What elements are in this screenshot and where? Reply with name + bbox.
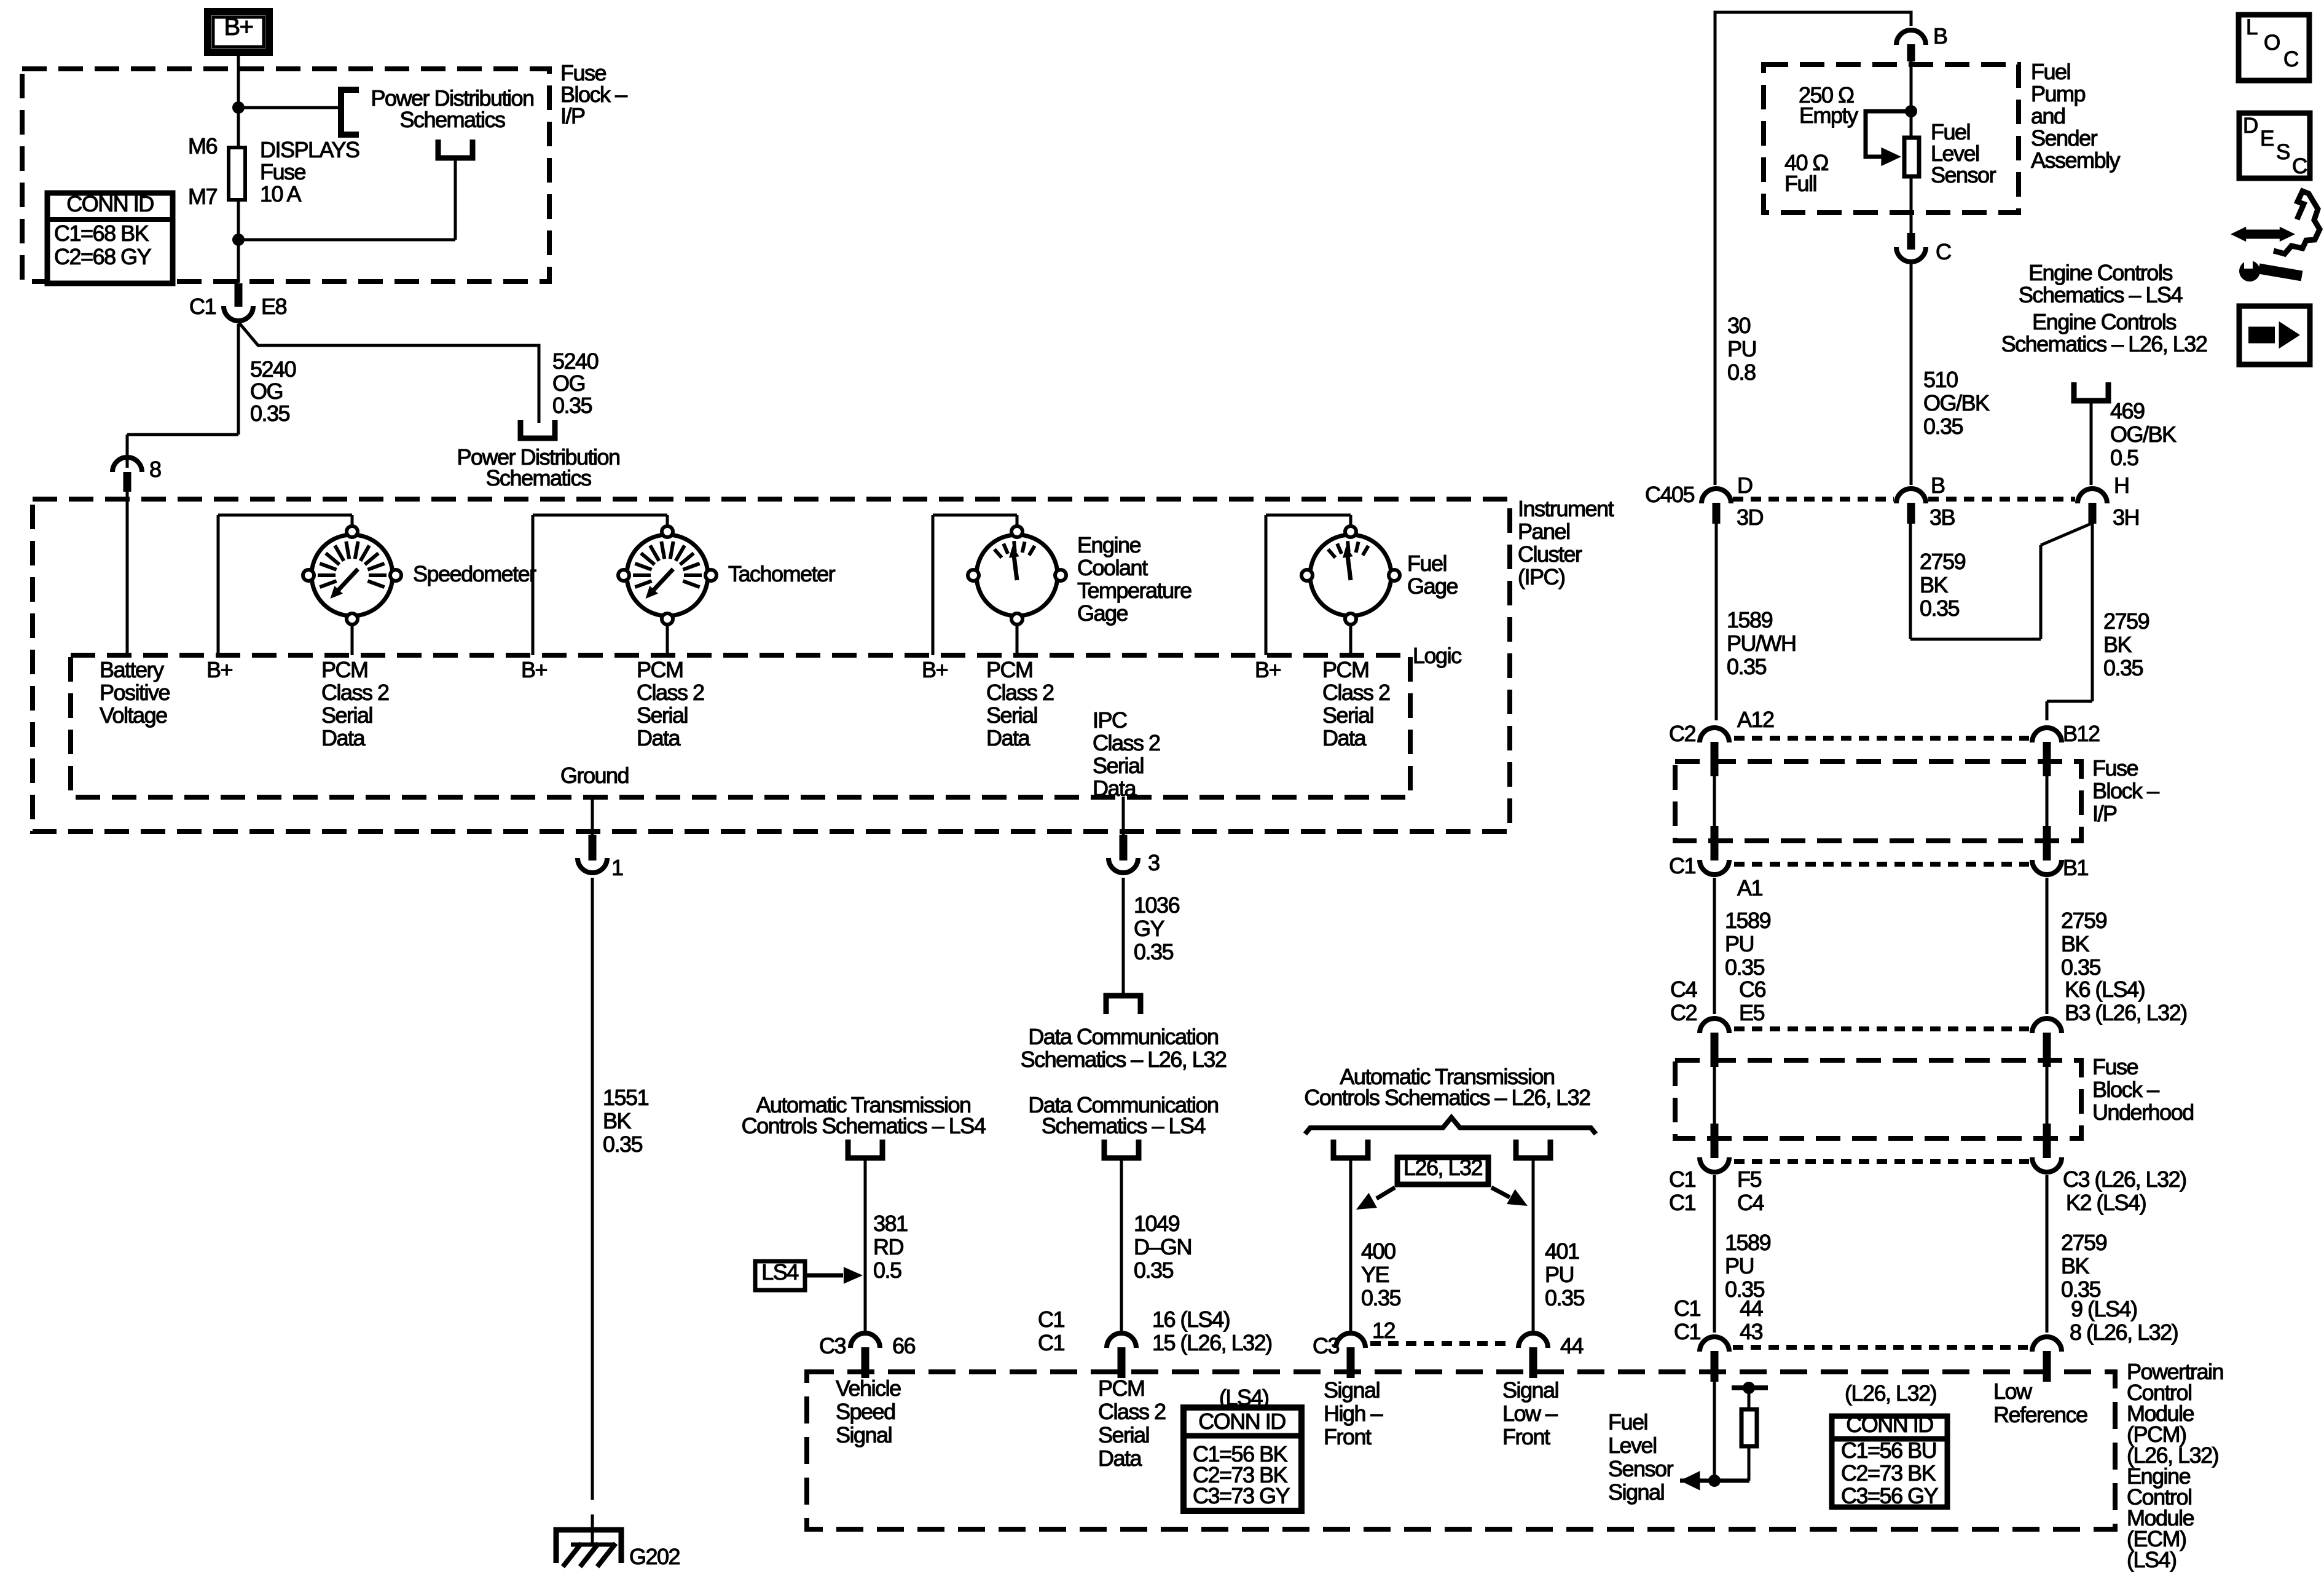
svg-text:Positive: Positive [100, 680, 170, 705]
svg-text:0.35: 0.35 [1920, 596, 1960, 621]
svg-text:Engine Controls: Engine Controls [2032, 309, 2176, 334]
svg-text:(L26, L32): (L26, L32) [1845, 1380, 1936, 1406]
svg-text:OG/BK: OG/BK [2110, 422, 2177, 447]
svg-text:C4: C4 [1737, 1190, 1764, 1215]
svg-text:Schematics – L26, L32: Schematics – L26, L32 [2001, 331, 2207, 356]
svg-text:E8: E8 [261, 294, 287, 319]
svg-text:O: O [2264, 31, 2280, 55]
svg-text:Logic: Logic [1413, 643, 1462, 668]
svg-text:Vehicle: Vehicle [836, 1376, 901, 1401]
svg-text:B+: B+ [206, 657, 233, 682]
svg-text:L: L [2246, 15, 2258, 39]
svg-text:B+: B+ [224, 14, 253, 41]
svg-text:1: 1 [611, 855, 623, 880]
svg-text:BK: BK [2061, 931, 2090, 956]
svg-text:YE: YE [1361, 1262, 1389, 1287]
svg-text:Gage: Gage [1407, 573, 1458, 599]
svg-text:Schematics – LS4: Schematics – LS4 [2019, 282, 2183, 307]
svg-text:B3 (L26, L32): B3 (L26, L32) [2065, 1000, 2187, 1025]
svg-text:Engine Controls: Engine Controls [2028, 260, 2172, 285]
svg-text:IPC: IPC [1093, 707, 1127, 733]
svg-text:Block –: Block – [2092, 1077, 2159, 1102]
svg-text:K2 (LS4): K2 (LS4) [2066, 1190, 2146, 1215]
svg-text:1049: 1049 [1134, 1211, 1180, 1236]
svg-text:C1: C1 [1038, 1330, 1064, 1355]
svg-text:Schematics: Schematics [399, 107, 505, 132]
svg-text:C3=56 GY: C3=56 GY [1841, 1483, 1939, 1508]
svg-text:Signal: Signal [836, 1422, 892, 1447]
svg-text:0.35: 0.35 [1134, 939, 1174, 964]
svg-text:and: and [2031, 103, 2065, 128]
svg-text:Speedometer: Speedometer [413, 561, 536, 586]
svg-text:9 (LS4): 9 (LS4) [2071, 1296, 2137, 1321]
svg-text:Fuse: Fuse [2092, 1054, 2138, 1079]
svg-text:510: 510 [1923, 367, 1958, 392]
svg-text:PU: PU [1545, 1262, 1574, 1287]
svg-text:H: H [2114, 473, 2129, 498]
svg-text:C: C [1936, 239, 1951, 264]
svg-text:1589: 1589 [1727, 607, 1773, 632]
svg-text:LS4: LS4 [761, 1259, 798, 1285]
svg-text:0.35: 0.35 [1727, 654, 1767, 679]
svg-text:(LS4): (LS4) [2127, 1547, 2177, 1572]
svg-text:B+: B+ [922, 657, 948, 682]
svg-text:I/P: I/P [560, 103, 585, 128]
svg-text:15 (L26, L32): 15 (L26, L32) [1152, 1330, 1272, 1355]
svg-text:C2: C2 [1669, 721, 1695, 746]
svg-text:C1=68 BK: C1=68 BK [54, 221, 149, 246]
svg-text:5240: 5240 [552, 348, 599, 374]
svg-text:0.35: 0.35 [250, 401, 290, 426]
svg-text:Front: Front [1324, 1424, 1372, 1449]
svg-text:PU: PU [1727, 336, 1756, 361]
svg-text:8: 8 [149, 457, 161, 482]
svg-text:C1: C1 [1674, 1319, 1700, 1344]
svg-text:BK: BK [603, 1108, 632, 1133]
svg-text:B: B [1933, 23, 1947, 49]
svg-text:M7: M7 [188, 184, 217, 209]
svg-text:8 (L26, L32): 8 (L26, L32) [2070, 1320, 2178, 1345]
svg-text:RD: RD [873, 1234, 903, 1259]
svg-text:F5: F5 [1737, 1167, 1761, 1192]
svg-text:0.35: 0.35 [1725, 955, 1765, 980]
svg-text:Class 2: Class 2 [1322, 680, 1390, 705]
svg-text:Voltage: Voltage [100, 703, 167, 728]
svg-text:0.35: 0.35 [603, 1132, 643, 1157]
svg-text:PU: PU [1725, 1253, 1754, 1278]
svg-text:Engine: Engine [1077, 532, 1141, 557]
svg-text:Pump: Pump [2031, 81, 2086, 106]
svg-text:B1: B1 [2063, 855, 2089, 880]
svg-text:C1: C1 [1669, 853, 1695, 878]
svg-text:0.35: 0.35 [2103, 655, 2143, 680]
svg-text:BK: BK [1920, 572, 1949, 597]
svg-text:0.5: 0.5 [873, 1258, 901, 1283]
svg-text:Serial: Serial [1098, 1422, 1149, 1447]
svg-text:C3: C3 [1313, 1333, 1339, 1358]
svg-text:C1: C1 [1674, 1296, 1700, 1321]
svg-text:Data: Data [1093, 776, 1137, 801]
svg-text:C1: C1 [1038, 1307, 1064, 1332]
svg-text:C3 (L26, L32): C3 (L26, L32) [2063, 1167, 2186, 1192]
svg-text:I/P: I/P [2092, 801, 2117, 826]
svg-text:E: E [2260, 127, 2274, 151]
svg-text:Class 2: Class 2 [986, 680, 1054, 705]
svg-text:Reference: Reference [1993, 1402, 2087, 1427]
svg-text:CONN ID: CONN ID [66, 191, 154, 216]
svg-text:Serial: Serial [1322, 703, 1373, 728]
svg-text:C1: C1 [1669, 1190, 1695, 1215]
svg-text:0.35: 0.35 [1545, 1285, 1585, 1310]
svg-text:2759: 2759 [2061, 908, 2107, 933]
svg-text:Speed: Speed [836, 1399, 895, 1424]
svg-text:B+: B+ [1255, 657, 1281, 682]
svg-text:0.35: 0.35 [1361, 1285, 1401, 1310]
svg-text:C405: C405 [1645, 482, 1695, 507]
svg-text:Serial: Serial [321, 703, 372, 728]
svg-text:Schematics: Schematics [485, 465, 591, 490]
svg-text:Serial: Serial [1093, 753, 1144, 778]
svg-text:Serial: Serial [637, 703, 688, 728]
svg-text:12: 12 [1372, 1318, 1396, 1343]
svg-text:Tachometer: Tachometer [728, 561, 836, 586]
svg-text:469: 469 [2110, 398, 2145, 423]
svg-text:Fuse: Fuse [260, 159, 306, 184]
svg-text:PCM: PCM [637, 657, 683, 682]
svg-text:A12: A12 [1737, 707, 1774, 732]
svg-text:Data Communication: Data Communication [1028, 1024, 1218, 1049]
svg-text:B+: B+ [521, 657, 548, 682]
svg-text:0.35: 0.35 [2061, 955, 2101, 980]
svg-text:0.5: 0.5 [2110, 445, 2138, 470]
svg-text:Fuse: Fuse [2092, 755, 2138, 781]
svg-text:C2: C2 [1670, 1000, 1697, 1025]
svg-text:5240: 5240 [250, 356, 296, 382]
svg-text:E5: E5 [1739, 1000, 1765, 1025]
svg-text:1589: 1589 [1725, 1230, 1771, 1255]
svg-text:Schematics – L26, L32: Schematics – L26, L32 [1021, 1047, 1227, 1072]
svg-text:B: B [1931, 473, 1945, 498]
svg-text:3H: 3H [2113, 505, 2139, 530]
svg-text:2759: 2759 [1920, 549, 1966, 574]
svg-text:D: D [2243, 114, 2258, 138]
svg-text:BK: BK [2103, 632, 2132, 657]
svg-text:44: 44 [1740, 1296, 1763, 1321]
svg-text:Data: Data [1098, 1446, 1143, 1471]
svg-text:OG/BK: OG/BK [1923, 390, 1990, 415]
svg-text:Class 2: Class 2 [637, 680, 704, 705]
svg-text:C4: C4 [1670, 977, 1697, 1002]
svg-text:Class 2: Class 2 [1093, 730, 1160, 755]
svg-text:OG: OG [250, 379, 283, 404]
svg-text:Data: Data [321, 725, 366, 750]
svg-text:Signal: Signal [1502, 1377, 1558, 1403]
svg-text:Data: Data [986, 725, 1031, 750]
svg-text:Fuel: Fuel [2031, 59, 2070, 84]
svg-text:G202: G202 [629, 1544, 680, 1569]
svg-text:OG: OG [552, 371, 585, 396]
svg-text:Fuel: Fuel [1608, 1409, 1647, 1435]
svg-text:BK: BK [2061, 1253, 2090, 1278]
svg-text:D: D [1737, 473, 1753, 498]
svg-text:Empty: Empty [1799, 103, 1858, 128]
svg-text:1589: 1589 [1725, 908, 1771, 933]
svg-text:K6 (LS4): K6 (LS4) [2065, 977, 2145, 1002]
svg-text:Signal: Signal [1608, 1479, 1664, 1505]
svg-text:400: 400 [1361, 1238, 1396, 1264]
svg-text:C: C [2292, 154, 2307, 178]
svg-text:D–GN: D–GN [1134, 1234, 1191, 1259]
svg-text:Assembly: Assembly [2031, 148, 2121, 173]
svg-text:High –: High – [1324, 1401, 1383, 1426]
svg-text:DISPLAYS: DISPLAYS [260, 137, 359, 162]
svg-text:Sensor: Sensor [1931, 162, 1996, 187]
svg-text:C: C [2283, 47, 2298, 71]
svg-text:C1: C1 [1669, 1167, 1695, 1192]
svg-text:Signal: Signal [1324, 1377, 1380, 1403]
svg-text:Cluster: Cluster [1518, 541, 1582, 567]
svg-text:0.35: 0.35 [1134, 1258, 1174, 1283]
svg-text:PU/WH: PU/WH [1727, 631, 1796, 656]
svg-text:Controls Schematics – L26, L32: Controls Schematics – L26, L32 [1304, 1085, 1590, 1110]
svg-text:3B: 3B [1929, 505, 1955, 530]
svg-text:CONN ID: CONN ID [1846, 1412, 1933, 1437]
svg-text:Sender: Sender [2031, 125, 2098, 151]
svg-text:C2=68 GY: C2=68 GY [54, 244, 152, 269]
svg-text:381: 381 [873, 1211, 908, 1236]
svg-text:3: 3 [1148, 850, 1160, 875]
svg-text:Front: Front [1502, 1424, 1550, 1449]
svg-text:Class 2: Class 2 [321, 680, 389, 705]
svg-text:44: 44 [1560, 1333, 1584, 1358]
svg-text:Underhood: Underhood [2092, 1100, 2194, 1125]
svg-text:(IPC): (IPC) [1518, 564, 1565, 589]
svg-text:C3: C3 [819, 1333, 846, 1358]
svg-text:PCM: PCM [321, 657, 368, 682]
svg-text:PU: PU [1725, 931, 1754, 956]
svg-text:CONN ID: CONN ID [1198, 1409, 1286, 1434]
svg-text:0.35: 0.35 [1923, 414, 1963, 439]
svg-text:Level: Level [1608, 1433, 1657, 1458]
svg-text:Controls Schematics – LS4: Controls Schematics – LS4 [742, 1113, 986, 1138]
svg-text:16 (LS4): 16 (LS4) [1152, 1307, 1230, 1332]
svg-text:Data: Data [637, 725, 681, 750]
svg-text:Instrument: Instrument [1518, 496, 1614, 521]
svg-text:Coolant: Coolant [1077, 555, 1148, 580]
svg-text:Low –: Low – [1502, 1401, 1558, 1426]
svg-text:1036: 1036 [1134, 892, 1180, 918]
svg-text:Serial: Serial [986, 703, 1037, 728]
svg-text:PCM: PCM [1098, 1376, 1145, 1401]
svg-text:2759: 2759 [2103, 608, 2149, 634]
svg-text:Data: Data [1322, 725, 1367, 750]
svg-text:Full: Full [1784, 171, 1816, 196]
svg-text:Block –: Block – [2092, 778, 2159, 803]
svg-text:0.8: 0.8 [1727, 360, 1756, 385]
svg-text:C3=73 GY: C3=73 GY [1193, 1483, 1290, 1508]
svg-text:Class 2: Class 2 [1098, 1399, 1166, 1424]
svg-text:Battery: Battery [100, 657, 164, 682]
svg-text:1551: 1551 [603, 1085, 649, 1110]
svg-text:Ground: Ground [560, 763, 629, 788]
svg-text:Panel: Panel [1518, 519, 1570, 544]
svg-text:30: 30 [1727, 313, 1751, 338]
svg-text:43: 43 [1740, 1319, 1763, 1344]
svg-text:M6: M6 [188, 133, 217, 159]
svg-text:GY: GY [1134, 916, 1165, 941]
svg-text:L26, L32: L26, L32 [1403, 1155, 1483, 1180]
svg-text:Schematics – LS4: Schematics – LS4 [1042, 1113, 1206, 1138]
svg-text:S: S [2276, 140, 2290, 164]
svg-text:Temperature: Temperature [1077, 578, 1191, 603]
svg-text:B12: B12 [2063, 721, 2100, 746]
svg-text:0.35: 0.35 [552, 393, 592, 418]
svg-text:Gage: Gage [1077, 600, 1128, 626]
svg-text:401: 401 [1545, 1238, 1579, 1264]
svg-text:C6: C6 [1739, 977, 1765, 1002]
svg-text:PCM: PCM [1322, 657, 1369, 682]
svg-text:C2=73 BK: C2=73 BK [1841, 1460, 1936, 1486]
svg-text:2759: 2759 [2061, 1230, 2107, 1255]
svg-text:C1: C1 [189, 294, 216, 319]
svg-text:A1: A1 [1737, 875, 1763, 900]
svg-text:Sensor: Sensor [1608, 1456, 1674, 1481]
svg-text:Low: Low [1993, 1379, 2033, 1404]
svg-text:66: 66 [892, 1333, 916, 1358]
svg-text:C1=56 BU: C1=56 BU [1841, 1438, 1936, 1463]
svg-text:PCM: PCM [986, 657, 1033, 682]
svg-text:10 A: 10 A [260, 181, 302, 207]
svg-text:Fuel: Fuel [1407, 551, 1447, 576]
svg-text:3D: 3D [1737, 505, 1764, 530]
